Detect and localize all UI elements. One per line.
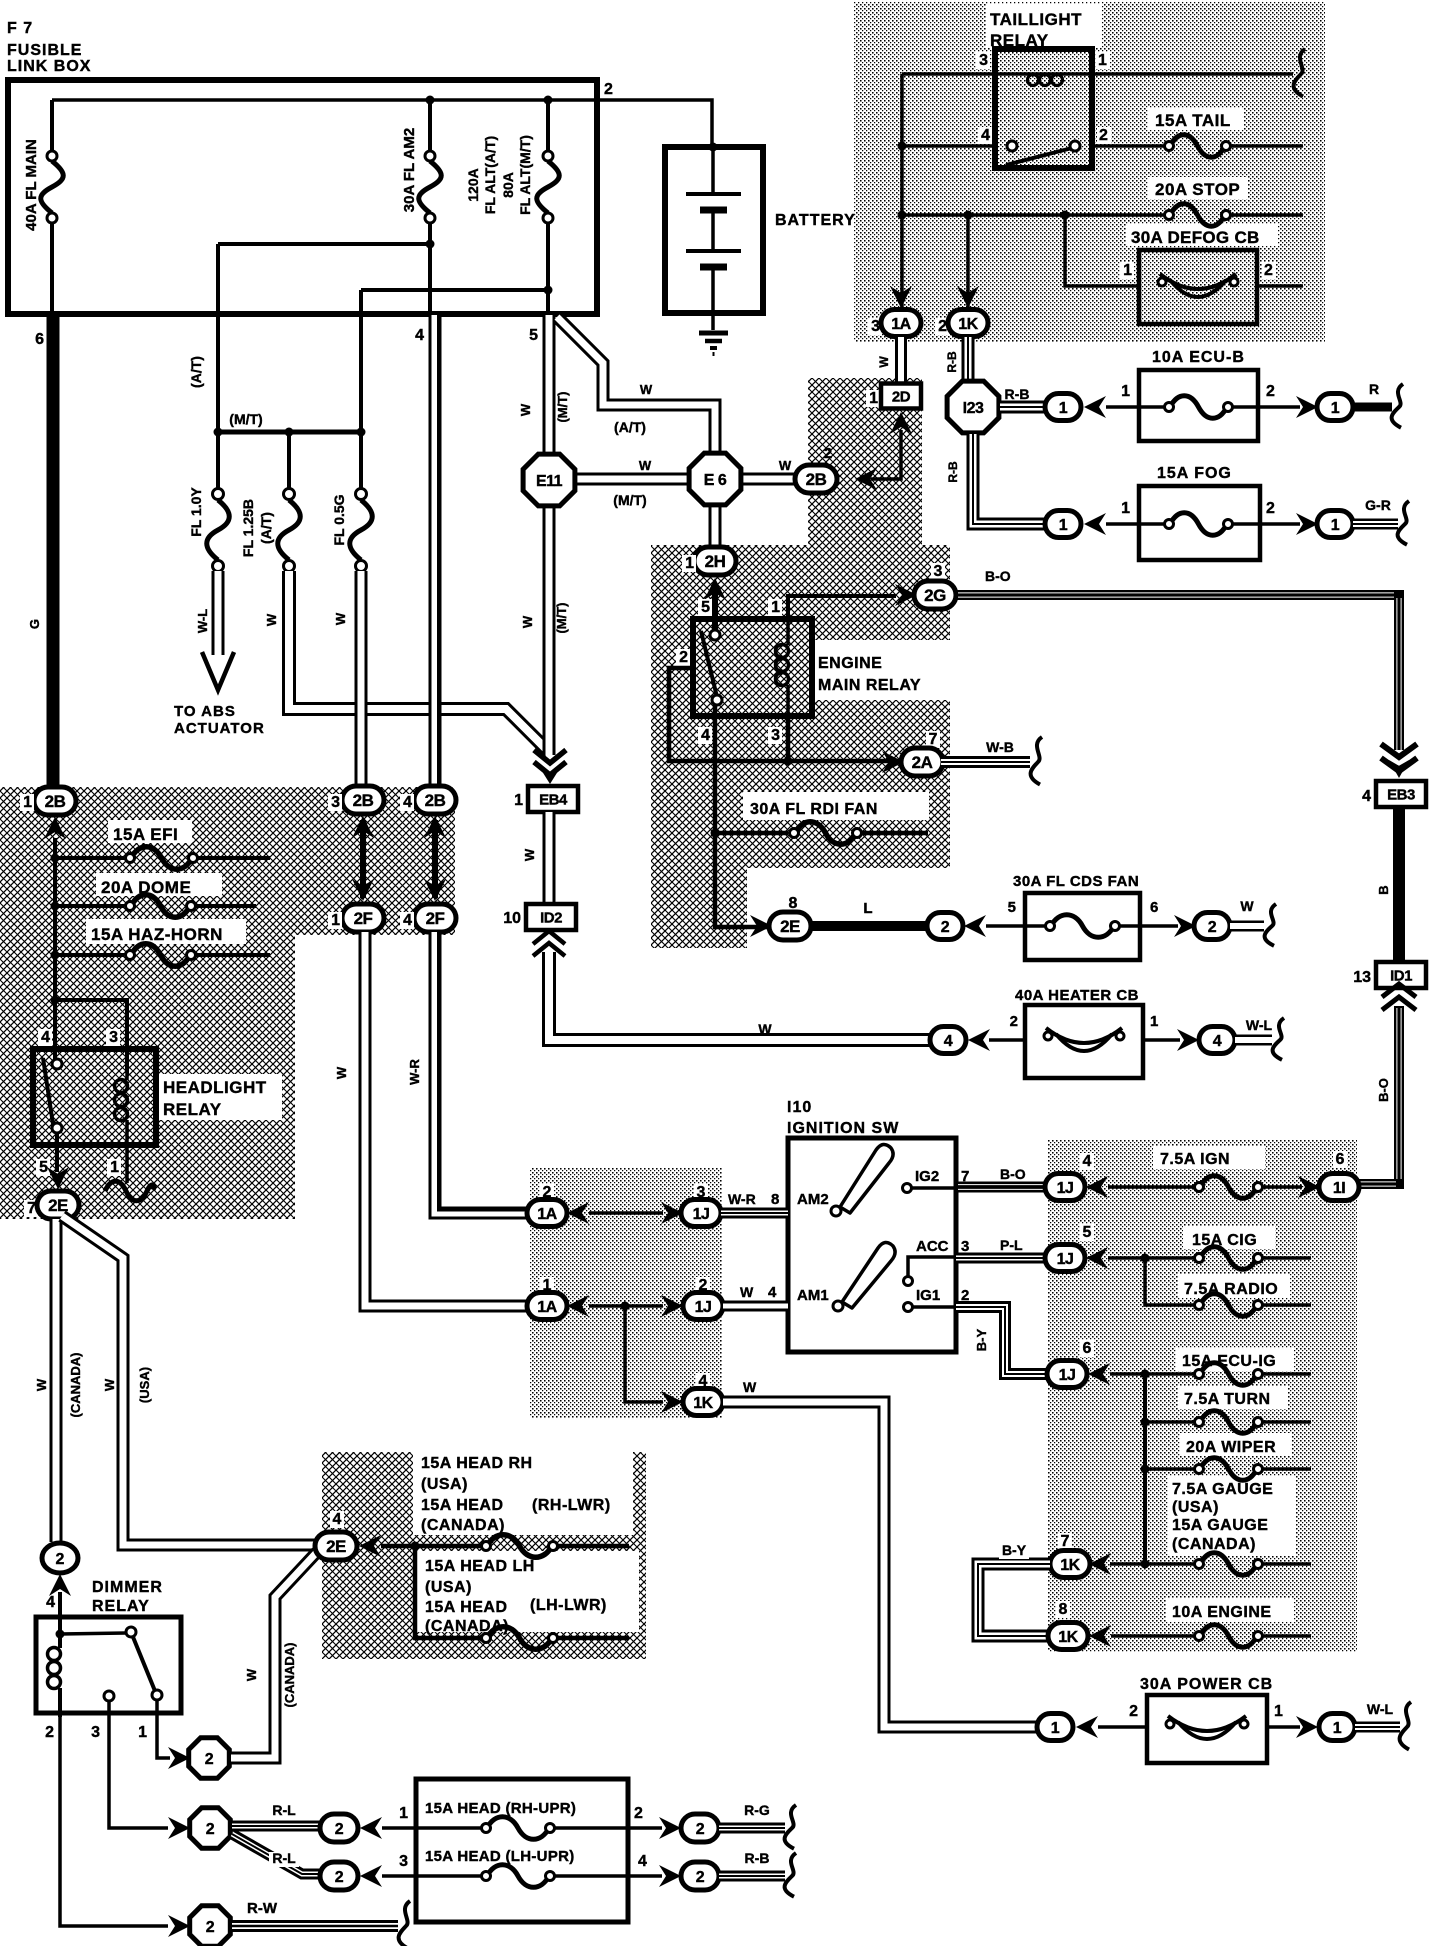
- svg-text:1K: 1K: [958, 316, 978, 333]
- arrow into 2B(2): [855, 468, 877, 490]
- svg-text:2: 2: [941, 919, 950, 936]
- connector 2B(2): [795, 465, 837, 493]
- arrow into 1K(4): [661, 1391, 683, 1413]
- wire R-B stub: [719, 1871, 785, 1882]
- arrow into octagon 2 (R-W): [168, 1915, 190, 1937]
- label 2 (heater pin): [1010, 1013, 1018, 1030]
- wire engine relay pin5 to 2H: [712, 592, 718, 640]
- wire 2D down to 2B(2): [871, 430, 901, 479]
- svg-text:L: L: [863, 900, 872, 917]
- breaker 30A DEFOG CB: [1139, 250, 1257, 324]
- label patch ENGINE MAIN RELAY: [813, 640, 955, 700]
- svg-text:IG1: IG1: [916, 1287, 940, 1304]
- svg-text:3: 3: [979, 52, 988, 69]
- engine main relay box: [693, 619, 812, 716]
- svg-text:ACTUATOR: ACTUATOR: [174, 720, 265, 737]
- svg-text:1I: 1I: [1333, 1180, 1345, 1197]
- wire: FL link stubs: [218, 432, 361, 489]
- arrow into 1K(2): [957, 286, 979, 308]
- fuse head LH-UPR: [382, 1865, 662, 1888]
- fuse 15A EFI: [55, 847, 270, 870]
- label 15A EFI: [113, 825, 178, 844]
- fuse 7.5A IGN: [1108, 1176, 1302, 1199]
- wire W 1K(4) to 30A POWER CB: [723, 1402, 1038, 1727]
- connector 2B(3): [342, 786, 384, 814]
- svg-text:2F: 2F: [354, 909, 373, 928]
- connector E11: [523, 454, 575, 506]
- wire 15A TAIL row: [1092, 135, 1303, 158]
- svg-text:(CANADA): (CANADA): [421, 1517, 505, 1534]
- svg-text:W-B: W-B: [986, 739, 1014, 755]
- svg-text:F 7: F 7: [7, 20, 33, 37]
- connector 2 (LH-UPR left): [320, 1862, 358, 1890]
- svg-text:IGNITION SW: IGNITION SW: [787, 1120, 899, 1137]
- label 2 (1K pin): [935, 318, 949, 335]
- svg-text:1: 1: [771, 599, 780, 616]
- label 5 (fan fuse pin): [1008, 899, 1016, 916]
- svg-text:7.5A TURN: 7.5A TURN: [1184, 1391, 1271, 1408]
- label 2 (1J pin): [696, 1277, 710, 1294]
- arrow into 1A(1): [567, 1295, 589, 1317]
- label patch 30A FL RDI FAN: [743, 792, 929, 820]
- label 30A FL CDS FAN: [1013, 873, 1139, 890]
- label patch 15A ECU-IG: [1176, 1348, 1294, 1371]
- connector 1J(6): [1047, 1361, 1087, 1388]
- label 3 (dimmer pin): [91, 1724, 100, 1741]
- svg-text:FUSIBLE: FUSIBLE: [7, 42, 82, 59]
- svg-text:3: 3: [331, 794, 340, 811]
- svg-text:7.5A RADIO: 7.5A RADIO: [1184, 1281, 1278, 1298]
- label 8 (2E pin): [786, 895, 800, 912]
- arrow from LH-UPR fuse: [360, 1865, 382, 1887]
- engine relay switch: [701, 630, 722, 705]
- fuse box 10A ECU-B: [1139, 370, 1258, 441]
- svg-text:AM1: AM1: [797, 1287, 829, 1304]
- label L: [863, 900, 872, 917]
- wire CDS fuse to right connector: [1118, 924, 1178, 928]
- svg-text:20A STOP: 20A STOP: [1155, 180, 1240, 199]
- breaker 30A POWER CB: [1147, 1695, 1267, 1763]
- svg-text:1J: 1J: [695, 1299, 712, 1316]
- arrow into 2E(8): [750, 915, 772, 937]
- svg-text:(RH-LWR): (RH-LWR): [532, 1497, 611, 1514]
- svg-text:13: 13: [1353, 969, 1371, 986]
- label W (FL 0.5G wire): [333, 612, 348, 625]
- label 20A WIPER: [1186, 1439, 1276, 1456]
- svg-text:1: 1: [1059, 517, 1068, 534]
- headlight relay switch: [43, 1058, 62, 1133]
- label 3 (2B pin): [328, 794, 342, 811]
- label 15A HEAD LH (USA)/(LH-LWR): [425, 1558, 607, 1635]
- wire feeder x=902: [898, 74, 907, 307]
- ignition key AM2: [831, 1144, 893, 1216]
- label AM2: [797, 1191, 829, 1208]
- arrow from CIG fuse: [1086, 1247, 1108, 1269]
- svg-text:(M/T): (M/T): [554, 602, 569, 633]
- svg-text:(LH-LWR): (LH-LWR): [530, 1597, 607, 1614]
- svg-text:(A/T): (A/T): [188, 356, 204, 388]
- label patch 7.5A TURN: [1178, 1386, 1288, 1409]
- wire head RH-LWR fuse row: [381, 1535, 629, 1558]
- fusible link 120A/80A FL ALT: [537, 96, 560, 315]
- headlight relay box: [33, 1049, 156, 1145]
- label W (EB4-ID2): [522, 848, 537, 861]
- label 4 (2F pin): [400, 912, 414, 929]
- svg-text:W: W: [740, 1284, 754, 1300]
- svg-text:2: 2: [206, 1919, 215, 1936]
- fuse 7.5A RADIO: [1145, 1258, 1311, 1316]
- svg-text:2B: 2B: [425, 791, 446, 810]
- connector 2A: [901, 748, 943, 776]
- wire FOG fuse out: [1231, 522, 1300, 526]
- label 10A ECU-B: [1152, 349, 1245, 366]
- chevrons into EB3: [1381, 744, 1417, 771]
- svg-text:1: 1: [1059, 400, 1068, 417]
- wire R-B I23 down to FOG: [973, 434, 1046, 524]
- label patch GAUGE fuses: [1168, 1476, 1296, 1556]
- wire dimmer pin3 to lower connector: [109, 1701, 168, 1828]
- label 20A STOP: [1155, 180, 1240, 199]
- label 5 (box pin): [529, 327, 538, 344]
- arrow into RH-UPR right connector: [659, 1817, 681, 1839]
- svg-text:R-B: R-B: [1005, 386, 1030, 402]
- label 40A FL MAIN: [23, 139, 40, 231]
- svg-text:W: W: [34, 1378, 49, 1391]
- arrow into 1J(2): [661, 1295, 683, 1317]
- label 7.5A IGN: [1160, 1151, 1230, 1168]
- wire headlight relay feeds: [55, 1000, 127, 1073]
- label 4 (dimmer pin): [46, 1594, 55, 1611]
- label B-O (IG2): [1000, 1166, 1026, 1182]
- svg-text:7: 7: [929, 731, 938, 748]
- ignition switch box: [788, 1138, 956, 1352]
- svg-text:5: 5: [1083, 1224, 1092, 1241]
- connector 2E(8): [769, 912, 811, 940]
- ignition IG1 contact: [904, 1303, 957, 1312]
- svg-text:2: 2: [206, 1821, 215, 1838]
- label W (CANADA) dimmer: [244, 1643, 297, 1708]
- label 10 (ID2 pin): [503, 910, 521, 927]
- label 20A DOME: [101, 878, 191, 897]
- svg-text:W: W: [520, 615, 535, 628]
- svg-text:ENGINE: ENGINE: [818, 655, 882, 672]
- connector EB3: [1376, 781, 1426, 807]
- svg-text:30A FL AM2: 30A FL AM2: [401, 128, 418, 212]
- label 30A DEFOG CB: [1131, 228, 1260, 247]
- arrow from ECU-B fuse: [1084, 396, 1106, 418]
- svg-text:I23: I23: [963, 400, 984, 417]
- label TAILLIGHT RELAY: [990, 10, 1082, 50]
- connector 1K(4): [683, 1389, 723, 1416]
- arrow into heater left connector: [968, 1029, 990, 1051]
- connector 2H: [694, 547, 736, 575]
- svg-text:1J: 1J: [1057, 1251, 1074, 1268]
- label G-R: [1365, 497, 1391, 513]
- connector 2B(4): [414, 786, 456, 814]
- label patch 15A TAIL: [1148, 108, 1244, 130]
- svg-text:RELAY: RELAY: [92, 1598, 150, 1615]
- connector 2 (CDS fan right): [1194, 913, 1230, 940]
- connector 1K (taillight): [948, 310, 988, 337]
- svg-text:30A POWER CB: 30A POWER CB: [1140, 1676, 1273, 1693]
- wire EB4 to ID2: [543, 812, 556, 903]
- label 13 (ID1 pin): [1353, 969, 1371, 986]
- wire: internal bus to battery (pin 2): [52, 100, 712, 145]
- dimmer switch: [60, 1627, 162, 1701]
- connector 1 (FOG left): [1045, 511, 1081, 538]
- wire: M/T bus y=432: [214, 428, 366, 437]
- label R-B (I23 down): [946, 461, 960, 483]
- wire relay pin3 stub: [786, 716, 791, 761]
- fuse head LH-LWR: [482, 1627, 630, 1650]
- svg-text:1: 1: [685, 555, 694, 572]
- shaded region: 2D/2B connector block: [808, 378, 922, 545]
- svg-text:8: 8: [1059, 1601, 1068, 1618]
- wire fuse feeder x=55: [51, 838, 60, 1050]
- shaded region: right fuse column block: [1048, 1140, 1357, 1652]
- svg-text:G: G: [27, 619, 42, 629]
- label 4 (2B pin): [400, 794, 414, 811]
- connector ID2: [526, 904, 576, 930]
- label 1 (dimmer pin): [138, 1724, 147, 1741]
- svg-text:ID1: ID1: [1390, 967, 1412, 984]
- label 15A ECU-IG: [1182, 1353, 1276, 1370]
- label patch 7.5A RADIO: [1178, 1274, 1290, 1298]
- label 4 (LH-UPR pin): [638, 1853, 647, 1870]
- label 4 (1J pin): [1080, 1153, 1094, 1170]
- label 3 (taillight pin): [976, 52, 990, 69]
- svg-text:15A GAUGE: 15A GAUGE: [1172, 1517, 1268, 1534]
- svg-text:W: W: [333, 612, 348, 625]
- wire into CDS fan fuse: [986, 924, 1048, 928]
- wire E11 to E6: [570, 473, 695, 486]
- label R-L (upper): [269, 1802, 299, 1819]
- label 2 (taillight pin): [1097, 127, 1111, 144]
- arrow from ECU-IG fuse: [1088, 1363, 1110, 1385]
- svg-text:(A/T): (A/T): [258, 512, 274, 544]
- wire W stub after fan connector: [1230, 921, 1264, 932]
- svg-text:1K: 1K: [1060, 1557, 1080, 1574]
- wire dimmer pin2 to R-W connector: [60, 1713, 168, 1926]
- arrow into 1A(2): [567, 1202, 589, 1224]
- label 30A FL AM2: [401, 128, 418, 212]
- label 1 (1A pin): [540, 1277, 554, 1294]
- svg-text:B-O: B-O: [1376, 1078, 1391, 1102]
- label ENGINE MAIN RELAY: [818, 655, 921, 694]
- label 30A POWER CB: [1140, 1676, 1273, 1693]
- svg-text:15A HEAD LH: 15A HEAD LH: [425, 1558, 535, 1575]
- svg-text:FL 0.5G: FL 0.5G: [331, 494, 347, 545]
- wire W-R from box pin4 down to 2B(4): [429, 315, 442, 790]
- label 5 (headlight pin): [36, 1159, 50, 1176]
- label 1 (heater pin): [1150, 1013, 1158, 1030]
- svg-text:I10: I10: [787, 1099, 812, 1116]
- svg-text:W: W: [264, 613, 279, 626]
- svg-text:1: 1: [514, 792, 523, 809]
- arrow into 2E(4): [359, 1535, 381, 1557]
- label 1 (headlight pin): [107, 1159, 121, 1176]
- wire B-O IG2 to 1J(4): [956, 1182, 1046, 1193]
- fuse box 30A FL CDS FAN: [1025, 893, 1140, 960]
- label 7.5A TURN: [1184, 1391, 1271, 1408]
- label 10A ENGINE: [1172, 1604, 1272, 1621]
- ignition ACC contact: [904, 1257, 957, 1286]
- wire W-B stub after 2A: [941, 756, 1030, 768]
- svg-text:1: 1: [23, 794, 32, 811]
- label 15A CIG: [1192, 1232, 1257, 1249]
- wire E6 to 2B(2): [735, 473, 800, 486]
- label 4 (headlight pin): [38, 1029, 52, 1046]
- connector EB4: [528, 786, 578, 812]
- svg-text:(A/T): (A/T): [614, 419, 646, 435]
- fuse 7.5A TURN: [1145, 1411, 1311, 1434]
- label patch 15A EFI: [108, 820, 192, 843]
- arrow into 1I: [1298, 1176, 1320, 1198]
- arrow from ENGINE fuse: [1089, 1625, 1111, 1647]
- svg-text:20A DOME: 20A DOME: [101, 878, 191, 897]
- connector 1A(2): [527, 1200, 567, 1227]
- label 7 (1K pin): [1058, 1533, 1072, 1550]
- wire W-L to ABS actuator: [212, 571, 225, 655]
- svg-text:80A: 80A: [500, 172, 516, 198]
- svg-text:7: 7: [1061, 1533, 1070, 1550]
- wire 1A(2) to 1J(3): [589, 1211, 663, 1215]
- fusible link box F7 outline: [8, 80, 597, 314]
- label FL 1.0Y: [188, 487, 204, 537]
- svg-text:B-Y: B-Y: [974, 1328, 989, 1351]
- funnel chevrons into EB4: [534, 750, 566, 775]
- wire L thick to fan connector: [810, 921, 927, 931]
- svg-text:W-R: W-R: [407, 1059, 422, 1085]
- svg-text:15A HEAD: 15A HEAD: [421, 1497, 504, 1514]
- wire E6 down to 2H: [709, 500, 722, 549]
- ignition IG2 contact: [903, 1184, 957, 1193]
- label patch HEADLIGHT RELAY: [158, 1074, 282, 1120]
- connector 2 (LH-UPR right): [681, 1862, 719, 1890]
- connector 2 (dimmer top circle): [42, 1543, 78, 1573]
- taillight relay coil: [902, 74, 1092, 86]
- wire R-L upper bundle: [232, 1821, 320, 1832]
- svg-text:DIMMER: DIMMER: [92, 1579, 163, 1596]
- wire P-L ACC to 1J(5): [956, 1253, 1046, 1264]
- label W (1A-2D): [877, 356, 891, 368]
- svg-text:1: 1: [138, 1724, 147, 1741]
- svg-text:5: 5: [1008, 899, 1016, 916]
- svg-text:6: 6: [1336, 1151, 1345, 1168]
- svg-text:W: W: [102, 1378, 117, 1391]
- label R-W: [247, 1900, 278, 1917]
- svg-text:15A ECU-IG: 15A ECU-IG: [1182, 1353, 1276, 1370]
- svg-text:2: 2: [1266, 500, 1275, 517]
- svg-text:(CANADA): (CANADA): [282, 1643, 297, 1708]
- label patch 30A DEFOG CB: [1126, 224, 1278, 246]
- label 6 (fan fuse pin): [1150, 899, 1158, 916]
- svg-text:2A: 2A: [912, 753, 933, 772]
- label patch 15A CIG: [1183, 1226, 1275, 1249]
- wire R stub: [1353, 403, 1392, 412]
- label TO ABS ACTUATOR: [174, 703, 265, 737]
- svg-text:W-R: W-R: [728, 1191, 756, 1207]
- label 3 (1A pin): [868, 318, 882, 335]
- svg-text:W: W: [743, 1379, 757, 1395]
- label 3 (headlight pin): [106, 1029, 120, 1046]
- shaded region: headlamp lower fuse block: [322, 1452, 646, 1659]
- svg-text:2B: 2B: [353, 791, 374, 810]
- wire 2B(4) to 2F(4): [424, 816, 446, 901]
- label 4 (1K pin): [696, 1373, 710, 1390]
- label 2 / W at 2B(2): [779, 445, 832, 473]
- label 15A FOG: [1157, 465, 1232, 482]
- label B-O (vertical): [1376, 1076, 1391, 1104]
- svg-text:W: W: [1240, 898, 1254, 914]
- svg-text:B-Y: B-Y: [1002, 1542, 1027, 1558]
- svg-text:2E: 2E: [326, 1537, 346, 1556]
- label W-L (power): [1367, 1701, 1394, 1717]
- dimmer relay box: [36, 1617, 181, 1713]
- svg-text:3: 3: [399, 1853, 408, 1870]
- svg-text:R-W: R-W: [247, 1900, 278, 1917]
- connector 1 (power right): [1319, 1714, 1355, 1741]
- fuse 10A ENGINE: [1111, 1625, 1311, 1648]
- svg-text:2: 2: [604, 81, 613, 98]
- svg-text:W: W: [640, 382, 653, 397]
- breaker 40A HEATER CB: [1025, 1005, 1143, 1078]
- label patch head RH fuse text: [413, 1448, 633, 1535]
- svg-text:R-L: R-L: [272, 1850, 296, 1866]
- wire E11 down to EB4: [543, 502, 556, 755]
- svg-text:R: R: [1369, 381, 1379, 397]
- label 15A HEAD (RH-UPR): [425, 1800, 576, 1817]
- label W (power feed): [743, 1379, 757, 1395]
- svg-text:ID2: ID2: [540, 909, 562, 926]
- label W (CANADA) left: [34, 1353, 83, 1418]
- taillight relay switch: [902, 141, 1080, 165]
- chevrons below ID2: [533, 931, 565, 956]
- svg-text:2: 2: [1099, 127, 1108, 144]
- wire W-R 1J(3) to AM2: [721, 1208, 788, 1219]
- label 2 (power CB pin): [1129, 1703, 1138, 1720]
- wire G thick from box to 2B(1): [47, 314, 60, 790]
- svg-text:W: W: [244, 1668, 259, 1681]
- label W / (M/T) above E11: [518, 391, 570, 422]
- label 4 (relay pin): [698, 727, 712, 744]
- svg-text:15A FOG: 15A FOG: [1157, 465, 1232, 482]
- label R-G: [744, 1802, 770, 1818]
- svg-text:E 6: E 6: [704, 472, 727, 489]
- wire 1A(1) to 1J(2): [589, 1302, 663, 1311]
- svg-text:2: 2: [45, 1724, 54, 1741]
- svg-text:2: 2: [1264, 262, 1273, 279]
- label 1 (FOG pin): [1121, 500, 1130, 517]
- svg-text:1: 1: [1331, 517, 1340, 534]
- svg-text:1: 1: [1150, 1013, 1158, 1030]
- svg-text:6: 6: [1150, 899, 1158, 916]
- label 1 (EB4 pin): [514, 792, 523, 809]
- svg-text:FL ALT(M/T): FL ALT(M/T): [517, 135, 533, 215]
- wire: ALT drop x=361: [359, 290, 363, 434]
- svg-text:W-L: W-L: [195, 609, 210, 633]
- svg-text:W: W: [639, 458, 652, 473]
- label 2 (dimmer pin): [45, 1724, 54, 1741]
- svg-text:(CANADA): (CANADA): [425, 1618, 509, 1635]
- svg-text:R-B: R-B: [745, 1850, 770, 1866]
- wire B-O from ID1 down to 1I: [1394, 1006, 1404, 1189]
- label 1 (ECU-B pin): [1121, 383, 1130, 400]
- svg-text:AM2: AM2: [797, 1191, 829, 1208]
- wire pin5 to 2E(7): [47, 1133, 69, 1189]
- label 2 (RH-UPR pin): [634, 1805, 643, 1822]
- svg-text:1: 1: [1121, 383, 1130, 400]
